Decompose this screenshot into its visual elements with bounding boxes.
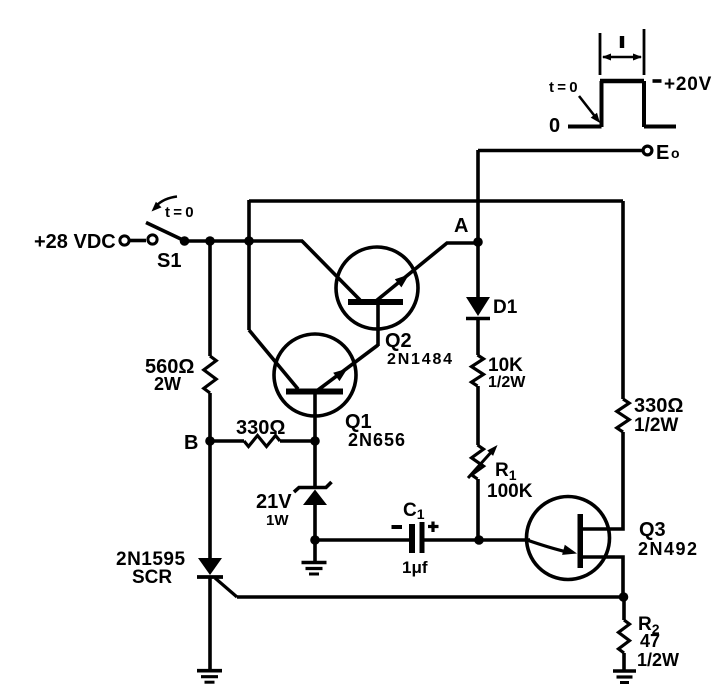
potentiometer R1 100K zigzag <box>472 445 484 479</box>
wire 330ohm to Q1 base <box>280 439 315 443</box>
wire left vertical from top rail down to Q1 collector <box>247 200 251 330</box>
node junction dot Q1 base / zener <box>310 436 320 446</box>
wire zener to junction <box>313 441 317 562</box>
wire node A to diode D1 <box>476 242 480 298</box>
label C1 minus sign <box>392 525 403 529</box>
ground below SCR <box>197 669 222 673</box>
svg-text:R1: R1 <box>495 460 517 483</box>
transistor Q2 circle <box>336 247 418 329</box>
wire right branch vertical from top rail <box>621 201 625 399</box>
wire 330ohm to Q3 base2 <box>582 432 623 529</box>
terminal switch right circle <box>148 235 157 244</box>
wire zener junction to C1 <box>315 538 409 542</box>
wire Q2 base lead down <box>376 304 380 346</box>
svg-text:1/2W: 1/2W <box>634 415 678 436</box>
node junction dot zener/C1 <box>310 535 320 545</box>
svg-text:2N656: 2N656 <box>348 430 406 450</box>
node junction dot 560ohm branch <box>205 236 215 246</box>
svg-text:D1: D1 <box>493 297 518 318</box>
waveform width tick right <box>643 29 646 75</box>
svg-text:S1: S1 <box>157 250 181 272</box>
capacitor C1 right plate <box>420 522 425 553</box>
diode D1 cathode bar <box>466 317 490 321</box>
SCR cathode bar <box>197 575 223 579</box>
wire 560ohm to SCR anode <box>208 393 212 558</box>
transistor Q2 base bar <box>348 299 403 305</box>
zener diode 21V bar <box>294 482 332 492</box>
node junction dot R1/C1/Q3 <box>474 535 484 545</box>
wire R1 to C1 junction <box>476 479 480 540</box>
svg-text:21V: 21V <box>256 491 292 513</box>
svg-text:100K: 100K <box>487 481 533 502</box>
waveform pulse baseline right <box>644 125 676 129</box>
svg-text:330Ω: 330Ω <box>634 395 683 417</box>
waveform width tick left <box>599 33 602 75</box>
zener diode 21V triangle <box>303 490 327 506</box>
transistor Q1 circle <box>274 334 356 416</box>
capacitor C1 left plate <box>409 524 415 553</box>
svg-text:+28 VDC: +28 VDC <box>34 231 116 253</box>
wire Q3 base1 lead <box>582 557 623 597</box>
wire R2 to ground <box>622 653 626 671</box>
svg-text:Q3: Q3 <box>639 519 666 541</box>
wire D1 to 10K <box>476 319 480 355</box>
resistor 330 ohm 1/2W <box>617 399 629 432</box>
diode D1 triangle <box>466 297 490 316</box>
wire Eo vertical from node A <box>476 150 480 242</box>
waveform pulse baseline left <box>568 125 602 129</box>
svg-text:E: E <box>656 142 669 164</box>
waveform t=0 arrow <box>579 96 597 119</box>
wire Q1 base lead down <box>313 393 317 441</box>
wire 10K to R1 <box>476 386 480 445</box>
wire +28VDC rail from switch S1 to Q2 collector diagonal <box>182 239 303 243</box>
waveform width dimension line <box>603 56 641 59</box>
svg-text:0: 0 <box>549 115 560 137</box>
svg-text:A: A <box>454 215 468 237</box>
waveform pulse top <box>600 79 644 83</box>
waveform level dash <box>653 79 662 83</box>
svg-text:1/2W: 1/2W <box>488 374 526 391</box>
svg-text:2N492: 2N492 <box>638 539 699 559</box>
wire junction to R2 <box>622 597 626 620</box>
svg-text:1W: 1W <box>266 512 289 529</box>
potentiometer R1 arrow <box>468 449 494 478</box>
node A junction dot <box>473 237 483 247</box>
svg-text:330Ω: 330Ω <box>236 417 285 439</box>
node junction dot at switch contact <box>180 236 190 246</box>
svg-text:1/2W: 1/2W <box>637 650 679 670</box>
transistor Q3 circle <box>527 497 610 580</box>
svg-text:10K: 10K <box>488 355 523 376</box>
resistor 10K 1/2W <box>472 355 484 386</box>
svg-text:Q2: Q2 <box>385 330 412 352</box>
resistor 560 ohm 2W <box>204 356 216 393</box>
svg-text:B: B <box>184 432 198 454</box>
wire Q2 collector diagonal <box>302 241 360 300</box>
resistor R2 47 1/2W <box>619 620 630 653</box>
transistor Q1 emitter arrow <box>333 369 347 382</box>
wire bottom rail gate to R2 junction <box>237 595 624 599</box>
svg-text:47: 47 <box>640 631 660 651</box>
svg-text:+20V: +20V <box>664 74 712 95</box>
svg-text:o: o <box>671 145 680 161</box>
wire Q1 emitter diagonal to Q2 base <box>318 345 378 390</box>
terminal Eo circle <box>643 146 652 155</box>
wire SCR cathode down to ground <box>208 577 212 671</box>
svg-text:t = 0: t = 0 <box>165 204 195 221</box>
node B junction dot <box>205 436 215 446</box>
wire top rail from left vertical to right 330ohm branch <box>249 199 623 203</box>
svg-text:SCR: SCR <box>132 567 172 588</box>
waveform width label t <box>620 36 624 48</box>
terminal switch left circle <box>120 236 129 245</box>
ground below zener <box>302 561 327 565</box>
transistor Q2 emitter arrow <box>395 275 409 288</box>
switch S1 closing arc arrow <box>156 197 177 207</box>
wire SCR gate diagonal <box>215 578 237 597</box>
silicon controlled rectifier 2N1595 triangle <box>198 558 222 575</box>
svg-text:1μf: 1μf <box>402 558 428 577</box>
transistor Q3 base bar <box>578 514 584 568</box>
wire Q2 emitter diagonal to node A <box>376 243 478 301</box>
waveform pulse rising edge <box>600 81 604 127</box>
wire Q3 emitter lead <box>527 540 567 552</box>
node junction dot left vertical <box>244 236 254 246</box>
node junction dot R2 top <box>619 592 629 602</box>
wire C1 to Q3 emitter <box>425 538 531 542</box>
resistor 330 ohm (base) <box>244 436 280 447</box>
wire Q1 collector diagonal <box>249 330 298 389</box>
transistor Q3 emitter arrow <box>562 545 577 555</box>
svg-text:2N1484: 2N1484 <box>387 351 454 368</box>
svg-text:t = 0: t = 0 <box>549 79 579 96</box>
wire node B to 330ohm <box>210 439 244 443</box>
switch S1 blade <box>146 223 184 241</box>
wire Eo horizontal output lead <box>478 149 642 153</box>
wire between switch terminals <box>130 239 146 243</box>
wire 560ohm branch upper <box>208 241 212 356</box>
ground below R2 <box>613 669 636 673</box>
label C1 plus sign <box>428 522 439 533</box>
svg-text:C1: C1 <box>403 500 425 522</box>
waveform pulse falling edge <box>642 81 646 127</box>
transistor Q1 base bar <box>286 389 343 395</box>
svg-text:2W: 2W <box>154 374 181 394</box>
